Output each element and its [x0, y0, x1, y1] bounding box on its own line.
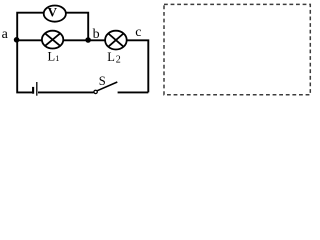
wire: left side down from node a and bottom to battery — [17, 40, 32, 92]
wire: voltmeter loop right side (from voltmeter right, down to node b) — [66, 13, 88, 41]
switch S pivot circle — [94, 90, 97, 93]
wire: voltmeter loop left side (node a up, then right to voltmeter) — [17, 13, 44, 41]
wire: switch to bottom-right corner — [118, 91, 149, 93]
svg-text:V: V — [48, 4, 58, 19]
lamp L2 — [105, 31, 127, 50]
node a junction dot — [14, 37, 20, 43]
svg-text:a: a — [2, 27, 9, 42]
switch S blade — [97, 82, 117, 91]
svg-text:2: 2 — [116, 54, 121, 65]
voltmeter V — [44, 6, 66, 22]
svg-text:L: L — [48, 49, 56, 63]
svg-text:L: L — [107, 50, 115, 64]
wire: battery to switch — [38, 91, 94, 93]
wire: lamp L2 to node c and down right side — [127, 40, 149, 92]
lamp L1 — [42, 31, 63, 49]
battery: short thick plate (negative) — [32, 87, 34, 94]
svg-text:S: S — [99, 74, 106, 88]
svg-text:1: 1 — [55, 53, 59, 63]
dashed box (empty region for answer) — [164, 4, 310, 94]
battery: long thin plate (positive) — [36, 82, 38, 96]
wire: node a to lamp L1 — [17, 39, 42, 41]
node b junction dot — [85, 37, 91, 43]
wire: lamp L1 to node b — [63, 39, 88, 41]
svg-text:c: c — [135, 25, 141, 40]
wire: node b to lamp L2 — [88, 39, 105, 41]
